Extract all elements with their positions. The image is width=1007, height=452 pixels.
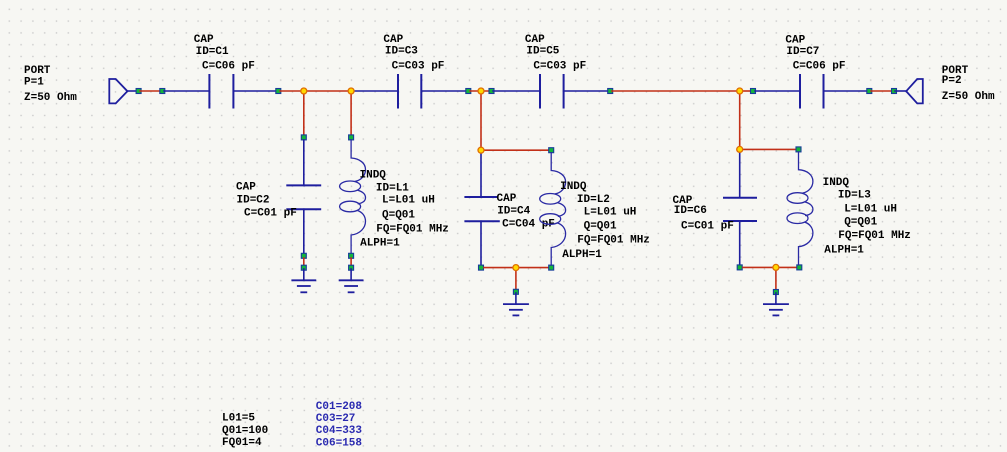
svg-text:ID=C3: ID=C3 xyxy=(385,46,418,58)
wire T4-N3-T5 red xyxy=(470,90,490,92)
svg-text:C06=158: C06=158 xyxy=(316,437,363,449)
svg-text:ID=C7: ID=C7 xyxy=(786,46,819,58)
terminal gnd4 xyxy=(773,290,778,295)
svg-text:C01=208: C01=208 xyxy=(316,401,363,413)
inductor L2 labels xyxy=(560,181,650,261)
wire T2 to C1 xyxy=(164,90,209,92)
svg-text:L=L01 uH: L=L01 uH xyxy=(584,206,637,218)
wire C6 down xyxy=(739,221,741,266)
capacitor C2 xyxy=(287,185,320,209)
svg-text:ID=L1: ID=L1 xyxy=(376,182,409,194)
terminal T5 xyxy=(489,89,494,94)
terminal T8 xyxy=(867,89,872,94)
svg-text:CAP: CAP xyxy=(785,34,805,46)
ground G3 xyxy=(504,304,528,315)
capacitor C3 xyxy=(398,75,421,108)
node N1 xyxy=(301,88,307,94)
wire C5 to T6 xyxy=(564,90,609,92)
wire C3 to T4 xyxy=(421,90,467,92)
terminal T4 xyxy=(466,89,471,94)
wire N1 to N2 red xyxy=(304,90,351,92)
inductor L3 xyxy=(787,152,813,265)
terminal T3 xyxy=(276,89,281,94)
port P2 labels xyxy=(942,65,995,103)
svg-text:FQ01=4: FQ01=4 xyxy=(222,437,262,449)
svg-text:C03=27: C03=27 xyxy=(316,413,356,425)
svg-text:CAP: CAP xyxy=(194,34,214,46)
svg-text:FQ=FQ01 MHz: FQ=FQ01 MHz xyxy=(577,235,650,247)
svg-text:CAP: CAP xyxy=(525,34,545,46)
wire to gnd3 xyxy=(515,293,517,304)
svg-text:INDQ: INDQ xyxy=(560,181,587,193)
port P1 xyxy=(109,79,127,103)
terminal L3 bottom xyxy=(797,265,802,270)
capacitor C3 labels xyxy=(383,34,444,72)
svg-text:Z=50 Ohm: Z=50 Ohm xyxy=(24,92,77,104)
svg-text:Q=Q01: Q=Q01 xyxy=(382,210,415,222)
ground G2 xyxy=(340,280,363,292)
node N6 xyxy=(513,265,519,271)
svg-text:C04=333: C04=333 xyxy=(316,425,363,437)
svg-text:INDQ: INDQ xyxy=(360,170,387,182)
svg-text:L=L01 uH: L=L01 uH xyxy=(382,195,435,207)
wire to gnd2 xyxy=(350,269,352,280)
terminal L2 top xyxy=(549,148,554,153)
wire N6 to L2 bottom red xyxy=(516,267,548,269)
wire C6 to N8 red xyxy=(743,266,776,268)
wire C4 to N6 red xyxy=(484,267,516,269)
capacitor C5 labels xyxy=(525,34,586,72)
svg-text:L01=5: L01=5 xyxy=(222,413,255,425)
svg-text:CAP: CAP xyxy=(383,34,403,46)
svg-text:P=2: P=2 xyxy=(942,75,962,87)
capacitor C6 xyxy=(724,198,756,221)
inductor L1 xyxy=(340,140,366,254)
wire T5 to C5 xyxy=(493,90,540,92)
terminal T7 xyxy=(751,89,756,94)
wire N8 down red xyxy=(775,267,777,290)
capacitor C4 xyxy=(465,197,498,221)
wire T3 to node N1 red xyxy=(280,90,304,92)
wire T8-T9 red xyxy=(871,90,892,92)
node N7 xyxy=(737,146,743,152)
ground G4 xyxy=(764,304,788,315)
terminal C6 bottom xyxy=(737,265,742,270)
svg-text:C=C06 pF: C=C06 pF xyxy=(202,60,255,72)
terminal C2 top xyxy=(301,135,306,140)
wire to C2 xyxy=(303,140,305,185)
terminal C2 bottom xyxy=(301,253,306,258)
wire C4 down xyxy=(480,221,482,266)
wire port1 to T1 xyxy=(127,90,137,92)
svg-text:C=C01 pF: C=C01 pF xyxy=(681,220,734,232)
wire T1-T2 red xyxy=(140,90,161,92)
terminal T6 xyxy=(608,89,613,94)
svg-text:ID=L3: ID=L3 xyxy=(838,190,871,202)
svg-text:Q=Q01: Q=Q01 xyxy=(584,220,617,232)
wire N5 to C4 xyxy=(480,150,482,197)
terminal C4 bottom xyxy=(479,265,484,270)
capacitor C2 labels xyxy=(236,182,297,220)
terminal T2 xyxy=(160,89,165,94)
svg-text:FQ=FQ01 MHz: FQ=FQ01 MHz xyxy=(838,230,911,242)
svg-text:ID=C4: ID=C4 xyxy=(497,205,530,217)
node N2 xyxy=(348,88,354,94)
terminal L1 bottom xyxy=(349,253,354,258)
svg-text:C=C03 pF: C=C03 pF xyxy=(533,61,586,73)
terminal gnd1 xyxy=(301,265,306,270)
svg-text:ALPH=1: ALPH=1 xyxy=(562,249,602,261)
terminal gnd3 xyxy=(513,289,518,294)
node N5 xyxy=(478,147,484,153)
wire N4 down red xyxy=(739,91,741,149)
terminal L2 bottom xyxy=(549,265,554,270)
svg-text:L=L01 uH: L=L01 uH xyxy=(844,203,897,215)
capacitor C1 labels xyxy=(194,34,255,72)
svg-text:ALPH=1: ALPH=1 xyxy=(824,244,864,256)
capacitor C7 labels xyxy=(785,34,845,72)
wire to gnd1 xyxy=(303,269,305,280)
node N3 xyxy=(478,88,484,94)
terminal T1 xyxy=(136,89,141,94)
svg-text:C=C03 pF: C=C03 pF xyxy=(392,60,445,72)
wire N6 down red xyxy=(515,268,517,290)
capacitor C4 labels xyxy=(497,193,555,230)
svg-text:P=1: P=1 xyxy=(24,76,44,88)
ground G1 xyxy=(292,280,315,292)
wire to gnd4 xyxy=(775,293,777,304)
wire red L1-gnd xyxy=(350,258,352,266)
inductor L1 labels xyxy=(360,170,449,250)
svg-text:C=C06 pF: C=C06 pF xyxy=(793,61,846,73)
svg-text:ID=C2: ID=C2 xyxy=(237,194,270,206)
svg-text:ALPH=1: ALPH=1 xyxy=(360,237,400,249)
wire C1 to T3 xyxy=(233,90,277,92)
wire N2 to C3 xyxy=(351,90,398,92)
svg-text:Q01=100: Q01=100 xyxy=(222,425,268,437)
terminal T9 xyxy=(892,89,897,94)
node N4 xyxy=(737,88,743,94)
port P1 labels xyxy=(24,65,77,104)
svg-text:CAP: CAP xyxy=(497,193,517,205)
capacitor C1 xyxy=(209,75,233,108)
terminal L1 top xyxy=(349,135,354,140)
node N8 xyxy=(773,264,779,270)
inductor L2 xyxy=(540,153,566,265)
svg-text:C=C01 pF: C=C01 pF xyxy=(244,208,297,220)
port P2 xyxy=(906,79,923,103)
wire C7 to T8 xyxy=(824,90,869,92)
wire red C2-gnd xyxy=(303,258,305,266)
svg-text:CAP: CAP xyxy=(236,182,256,194)
wire N3 down red xyxy=(480,91,482,150)
wire N2 down red xyxy=(350,91,352,136)
wire T6 to N4 red xyxy=(612,90,740,92)
capacitor C7 xyxy=(800,75,824,108)
svg-text:INDQ: INDQ xyxy=(823,177,850,189)
svg-text:Q=Q01: Q=Q01 xyxy=(844,216,877,228)
wire T7 to C7 xyxy=(755,90,800,92)
wire N5 to L2 top red xyxy=(481,149,549,151)
svg-text:Z=50 Ohm: Z=50 Ohm xyxy=(942,91,995,103)
wire C2 down xyxy=(303,209,305,254)
svg-text:ID=C6: ID=C6 xyxy=(674,205,707,217)
capacitor C5 xyxy=(540,75,564,108)
svg-text:PORT: PORT xyxy=(24,65,51,77)
wire N4 to T7 red xyxy=(740,90,752,92)
capacitor C6 labels xyxy=(673,195,734,232)
wire N7 to L3 top red xyxy=(740,148,796,150)
svg-text:ID=C5: ID=C5 xyxy=(526,46,559,58)
svg-text:ID=L2: ID=L2 xyxy=(577,194,610,206)
terminal L3 top xyxy=(796,147,801,152)
wire T9 to port P2 xyxy=(895,90,906,92)
terminal gnd2 xyxy=(349,265,354,270)
wire N8 to L3 bottom red xyxy=(776,266,797,268)
svg-text:FQ=FQ01 MHz: FQ=FQ01 MHz xyxy=(376,224,449,236)
svg-text:ID=C1: ID=C1 xyxy=(196,46,229,58)
wire N1 down red xyxy=(303,91,305,136)
inductor L3 labels xyxy=(823,177,911,256)
wire N7 to C6 xyxy=(739,149,741,197)
